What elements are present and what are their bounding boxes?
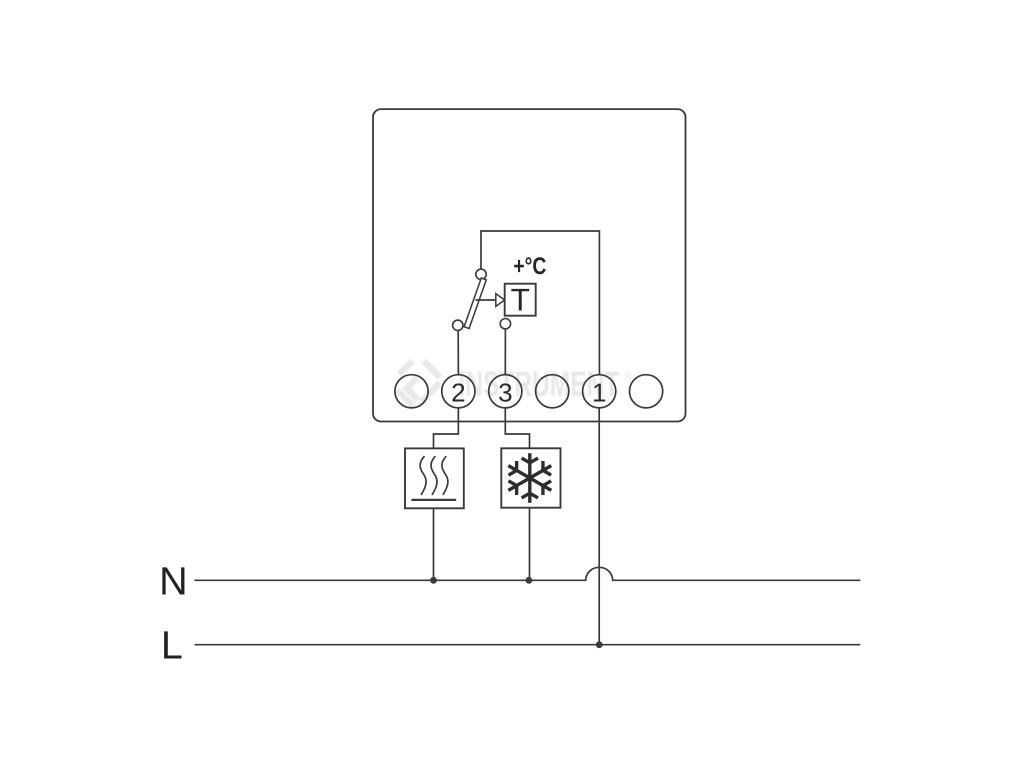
svg-text:+°C: +°C <box>513 253 546 280</box>
switch top contact circle <box>476 269 486 279</box>
wire: terminal 2 to heater <box>434 408 459 449</box>
junction dot cooler-N <box>526 577 533 584</box>
svg-text:1: 1 <box>592 378 606 408</box>
wire: terminal 1 to L line <box>598 408 600 645</box>
svg-text:2: 2 <box>451 378 465 408</box>
heating element wave 3 <box>442 456 448 495</box>
terminal circle B <box>536 375 569 408</box>
heating element wave 1 <box>420 456 426 495</box>
wire: sensor to terminal 3 <box>504 329 506 375</box>
thermostat block T <box>505 284 536 316</box>
wire: terminal 3 to cooler <box>505 408 529 448</box>
junction dot heater-N <box>430 577 437 584</box>
terminal circle A <box>395 375 428 408</box>
junction dot terminal1-L <box>596 641 603 648</box>
arrow line to thermostat <box>476 299 496 301</box>
svg-text:L: L <box>161 623 183 667</box>
svg-text:N: N <box>159 559 188 603</box>
wire: heater to N line <box>433 508 435 580</box>
sensor contact circle <box>500 319 510 329</box>
svg-text:T: T <box>511 282 530 318</box>
heater base line <box>411 499 456 501</box>
svg-text:3: 3 <box>498 378 512 408</box>
wire: cooler to N line <box>529 508 531 581</box>
wire: switch top to terminal 1 loop <box>481 231 599 375</box>
switch bottom contact circle <box>453 320 463 330</box>
terminal circle 3 <box>489 375 522 408</box>
terminal circle 1 <box>583 375 616 408</box>
N line with hop over terminal 1 wire <box>195 567 861 580</box>
heating element wave 2 <box>431 456 437 495</box>
snowflake symbol <box>508 453 551 503</box>
watermark logo <box>397 361 440 406</box>
cooler box <box>501 448 560 507</box>
thermostat enclosure <box>373 109 686 421</box>
switch blade <box>464 278 486 329</box>
arrowhead <box>496 294 505 307</box>
wire: switch bottom to terminal 2 <box>457 331 459 375</box>
heater box <box>405 448 464 508</box>
terminal circle C <box>630 375 663 408</box>
L line <box>195 644 861 646</box>
terminal circle 2 <box>442 375 475 408</box>
